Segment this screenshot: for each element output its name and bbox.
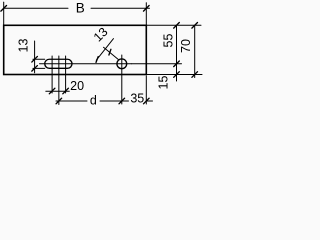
tick 70 top — [192, 23, 198, 29]
dimension line 55/15 (vertical at x=176.5) — [176, 25, 178, 81]
top edge extension right (for 55/70) — [146, 24, 201, 26]
dimension line 20 — [46, 90, 70, 92]
tick 55/15 middle — [174, 61, 180, 67]
hole center extension line to right — [132, 63, 182, 65]
svg-text:13: 13 — [17, 39, 31, 53]
tick d left (slot center) — [56, 98, 62, 104]
tick 13 top — [32, 56, 38, 62]
dimension line d / 35 — [56, 100, 87, 102]
tick 20 right — [63, 88, 69, 94]
svg-text:15: 15 — [156, 76, 170, 90]
svg-text:35: 35 — [130, 92, 144, 106]
tick dia upper — [109, 49, 111, 55]
slot left arc center line (vertical) — [51, 56, 53, 93]
left edge extension up (for B) — [3, 2, 5, 25]
svg-text:55: 55 — [161, 34, 175, 48]
tick 15 bottom — [174, 72, 180, 78]
bottom edge extension right (for 70/15) — [146, 74, 202, 76]
center line horizontal (slot to circle) — [40, 63, 132, 65]
tick B right — [144, 6, 150, 12]
tick 20 left — [49, 88, 55, 94]
svg-text:d: d — [90, 94, 97, 108]
tick dia lower — [96, 57, 98, 63]
dimension line 70 (vertical at x=194.7) — [194, 25, 196, 77]
hole dia dimension line (under text, 45deg) — [96, 39, 113, 61]
hole center line vertical (to d/35 dim) — [121, 55, 123, 104]
tick 70 bottom — [192, 72, 198, 78]
dimension line B — [4, 7, 68, 9]
right edge extension up (for B) — [145, 3, 147, 26]
slot bottom edge extension left (for 13) — [33, 67, 45, 69]
slot center line (vertical, to d dim) — [58, 56, 60, 105]
tick B left — [1, 6, 7, 12]
tick 35 right (plate edge) — [144, 98, 150, 104]
svg-text:70: 70 — [179, 39, 193, 53]
svg-text:B: B — [76, 0, 85, 15]
tick d/35 (hole center) — [119, 98, 125, 104]
tick 55 top — [174, 23, 180, 29]
slot right arc center line (vertical) — [65, 56, 67, 93]
svg-text:20: 20 — [70, 79, 84, 93]
dimension line 13 (vertical at x=34.6) — [34, 41, 36, 73]
hole dia leader to circle — [104, 47, 119, 59]
right edge extension down (for d/35) — [145, 76, 147, 104]
plate outline — [4, 25, 147, 74]
slot top edge extension left (for 13) — [33, 58, 45, 60]
hole circle — [117, 59, 127, 69]
tick 13 bottom — [32, 66, 38, 72]
slot (obround) — [45, 59, 72, 68]
